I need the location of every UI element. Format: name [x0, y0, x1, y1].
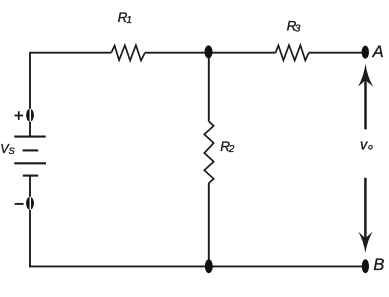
- wire bottom: [29, 265, 365, 267]
- svg-text:1: 1: [126, 15, 132, 26]
- wire left vertical upper: [29, 52, 31, 137]
- battery plate long: [14, 162, 46, 164]
- wire left vertical lower: [29, 176, 31, 268]
- svg-text:o: o: [368, 141, 373, 151]
- battery plate short bottom: [23, 175, 38, 177]
- svg-text:v: v: [360, 138, 368, 154]
- arrow vo up shaft: [364, 80, 367, 129]
- wire middle vertical lower: [208, 183, 210, 266]
- wire R3-to-A: [309, 52, 366, 54]
- junction node top: [205, 45, 213, 58]
- arrow vo down head: [358, 232, 373, 253]
- svg-text:2: 2: [228, 144, 235, 155]
- resistor R2: [204, 122, 213, 184]
- arrow vo down shaft: [364, 178, 367, 239]
- wire R1-to-R3 through node: [145, 52, 276, 54]
- svg-text:3: 3: [295, 23, 301, 34]
- resistor R3: [276, 45, 309, 60]
- resistor R1: [111, 45, 145, 60]
- svg-text:B: B: [373, 256, 384, 274]
- terminal dot plus: [26, 109, 34, 122]
- node B dot: [362, 259, 369, 273]
- junction node bottom: [205, 259, 213, 273]
- svg-text:A: A: [372, 43, 384, 61]
- wire top left-to-R1: [30, 52, 111, 54]
- plus sign: [15, 111, 24, 120]
- terminal dot minus: [26, 197, 34, 210]
- battery plate short: [23, 149, 39, 151]
- wire middle vertical upper: [208, 52, 210, 122]
- svg-text:S: S: [9, 146, 15, 156]
- minus sign: [15, 203, 24, 205]
- battery plate long top: [14, 136, 45, 138]
- arrow vo up head: [358, 64, 373, 87]
- node A dot: [362, 46, 369, 59]
